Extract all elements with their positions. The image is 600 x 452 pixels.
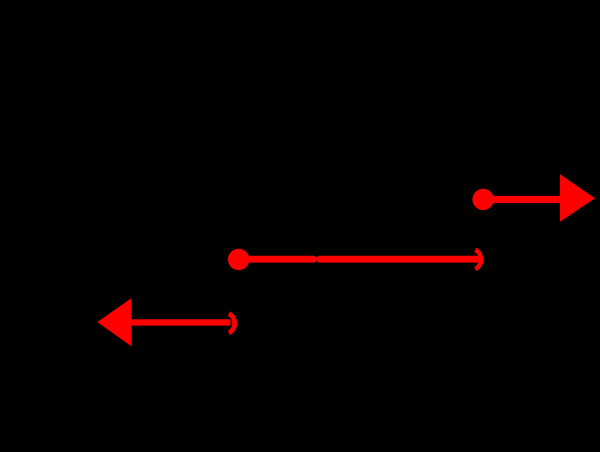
current arrow I2 shaft segment a xyxy=(241,256,313,263)
node A xyxy=(464,252,478,266)
current arrow I3 head xyxy=(97,298,131,346)
node B xyxy=(217,316,231,330)
svg-text:V1: V1 xyxy=(20,212,47,237)
svg-text:I2: I2 xyxy=(340,224,360,251)
svg-text:R2: R2 xyxy=(555,265,583,290)
current arrow I2 head bracket xyxy=(475,250,481,269)
current arrow I2 shaft segment b xyxy=(320,256,477,263)
current arrow I1 head xyxy=(560,174,595,222)
svg-text:R1: R1 xyxy=(306,10,334,35)
current arrow I1 shaft xyxy=(483,196,561,203)
wire middle horizontal xyxy=(237,257,480,261)
current arrow I3 shaft xyxy=(131,319,231,325)
svg-text:I3: I3 xyxy=(150,289,170,316)
wire right vertical xyxy=(538,60,542,392)
wire top horizontal xyxy=(60,58,540,62)
wire left vertical xyxy=(58,60,62,392)
current arrow I1 tail dot xyxy=(472,189,493,210)
wire bottom horizontal xyxy=(60,390,540,394)
current arrow I2 tail dot xyxy=(228,249,249,270)
wire branch vertical xyxy=(314,259,318,392)
svg-text:I1: I1 xyxy=(520,149,540,176)
resistor R1 xyxy=(280,10,360,80)
current arrow I3 tail bracket xyxy=(229,314,235,333)
voltage source V1 xyxy=(20,196,90,256)
resistor R2 xyxy=(500,240,583,320)
